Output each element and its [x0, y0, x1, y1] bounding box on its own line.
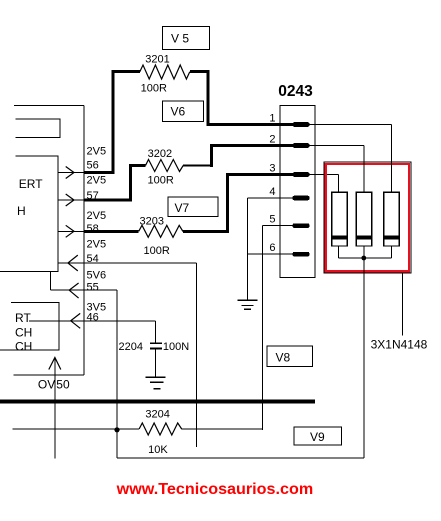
wire pin5 vertical: [262, 226, 264, 430]
diode D2 body: [356, 192, 372, 246]
wire 10K row left: [13, 428, 139, 430]
svg-text:5: 5: [269, 214, 275, 226]
svg-text:OV: OV: [38, 378, 55, 392]
arrow left pin55: [69, 283, 78, 298]
box V8: [267, 346, 313, 367]
wire pin1 thin right to D3: [308, 124, 391, 126]
resistor R3202: [146, 160, 184, 172]
svg-text:6: 6: [269, 242, 275, 254]
arrow right pin57: [66, 194, 74, 206]
svg-text:100R: 100R: [144, 245, 170, 257]
wire pin5 thin left: [263, 225, 294, 227]
svg-text:2V5: 2V5: [87, 210, 107, 222]
wire pin55 vertical down to 10K row: [116, 290, 118, 458]
wire D3 top lead: [390, 125, 392, 193]
box V9: [294, 427, 342, 445]
wire pin2 thin right to D2: [308, 145, 364, 147]
diode D3 body: [384, 192, 400, 246]
wire pin57 thin: [58, 199, 84, 201]
diode D2 cathode band: [356, 236, 372, 240]
red box (diode module): [326, 164, 409, 271]
pin 5 bar: [293, 223, 310, 228]
pin 6 bar: [293, 252, 310, 257]
pin 3 bar: [293, 172, 310, 177]
wire diode rail down to bottom rail: [363, 258, 365, 458]
wire bottom rail: [117, 457, 364, 459]
svg-text:3204: 3204: [145, 409, 169, 421]
wire diode common rail: [339, 257, 392, 259]
svg-text:RT: RT: [15, 311, 31, 325]
pin 1 bar: [293, 122, 310, 127]
ground symbol (C2204): [146, 377, 166, 389]
wire D1 top lead: [338, 175, 340, 193]
svg-text:58: 58: [87, 223, 99, 235]
wire pin55 stub from IC bottom: [49, 272, 51, 291]
wire pin55 thin: [50, 289, 117, 291]
svg-text:3X1N4148: 3X1N4148: [371, 338, 428, 352]
svg-text:5V6: 5V6: [87, 270, 107, 282]
pin 2 bar: [293, 143, 310, 148]
svg-text:3: 3: [269, 162, 275, 174]
capacitor C2204 lead top: [154, 321, 156, 343]
svg-text:V 5: V 5: [171, 32, 189, 46]
svg-text:www.Tecnicosaurios.com: www.Tecnicosaurios.com: [116, 481, 314, 498]
connector stub (open rectangle top-left): [15, 119, 60, 138]
thick ground bus: [0, 400, 315, 404]
arrow left pin54: [68, 255, 78, 271]
arrow right pin56: [66, 167, 74, 179]
svg-text:46: 46: [87, 311, 99, 323]
wire pin57 thick to R3202: [84, 166, 146, 202]
arrow up OV50: [49, 358, 61, 370]
wire pin4/pin6 vertical to ground: [247, 198, 249, 300]
diode D3 cathode band: [384, 236, 400, 240]
svg-text:54: 54: [87, 253, 99, 265]
leader line red box to label: [402, 273, 404, 336]
wire pin56 thin: [58, 172, 84, 174]
wire pin46 thin from RT: [29, 320, 155, 322]
svg-text:2V5: 2V5: [87, 238, 107, 250]
wire pin6 thin left: [248, 253, 294, 255]
svg-text:100R: 100R: [141, 83, 167, 95]
capacitor C2204 lead bottom: [154, 349, 156, 377]
box V7: [168, 197, 218, 216]
svg-text:4: 4: [269, 186, 275, 198]
resistor R3204: [139, 423, 182, 435]
wire D2 bottom lead: [363, 246, 365, 258]
wire pin58 thick to R3203: [84, 230, 139, 233]
IC U1 (ERT H) partial outline: [0, 156, 58, 272]
svg-text:10K: 10K: [148, 444, 168, 456]
wire R3203 right thick up to pin3: [183, 175, 294, 234]
wire pin4 thin left: [248, 197, 294, 199]
svg-text:3201: 3201: [145, 53, 169, 65]
box V5: [162, 27, 209, 50]
arrow right pin58: [66, 225, 74, 237]
svg-text:50: 50: [56, 378, 70, 392]
wire pin3 thin right to D1: [308, 174, 339, 176]
svg-text:3203: 3203: [140, 216, 164, 228]
ground symbol (pins 4/6): [238, 300, 258, 309]
svg-text:ERT: ERT: [19, 177, 43, 191]
wire 10K row right to pin5 drop: [182, 428, 263, 430]
svg-text:2V5: 2V5: [87, 174, 107, 186]
resistor R3201: [140, 65, 190, 79]
junction dot node A: [114, 427, 119, 432]
svg-text:V8: V8: [276, 351, 291, 365]
wire OV50 vertical with up arrow: [54, 358, 56, 459]
svg-text:V9: V9: [310, 430, 325, 444]
wire pin54 thin: [58, 262, 196, 264]
svg-text:2: 2: [269, 133, 275, 145]
svg-text:V6: V6: [171, 105, 186, 119]
svg-text:3202: 3202: [148, 148, 172, 160]
wire D3 bottom lead: [390, 246, 392, 258]
wire pin56 thick to R3201: [84, 72, 140, 174]
wire D1 bottom lead: [338, 246, 340, 258]
resistor R3203: [139, 225, 183, 237]
wire corner up to pin2 thick: [210, 146, 294, 168]
wire R3202 right to corner: [183, 165, 211, 167]
wire top-left horizontal to bus top: [14, 105, 84, 107]
wire bus bottom horizontal: [14, 374, 84, 376]
node left bus vertical: [83, 106, 85, 376]
svg-text:2204: 2204: [119, 341, 143, 353]
wire R3201 right thick to pin1: [190, 70, 294, 124]
diode D1 body: [332, 192, 348, 246]
svg-text:1: 1: [269, 112, 275, 124]
junction dot diode rail: [361, 256, 366, 261]
svg-text:2V5: 2V5: [87, 145, 107, 157]
connector J1 box: [280, 106, 315, 278]
box V6: [162, 101, 203, 121]
svg-text:V7: V7: [175, 201, 190, 215]
svg-text:CH: CH: [15, 339, 32, 353]
svg-text:CH: CH: [15, 326, 32, 340]
svg-text:55: 55: [87, 282, 99, 294]
IC U2 (RT CH CH) partial outline: [0, 303, 59, 351]
wire D2 top lead: [363, 146, 365, 193]
diode D1 cathode band: [332, 236, 348, 240]
svg-text:H: H: [17, 204, 26, 218]
wire pin54 vertical down: [195, 263, 197, 447]
wire pin58 thin: [58, 230, 84, 232]
svg-text:56: 56: [87, 160, 99, 172]
capacitor C2204 plates: [150, 343, 162, 348]
svg-text:100N: 100N: [163, 341, 189, 353]
red box black outer frame: [324, 162, 411, 273]
pin 4 bar: [293, 196, 310, 201]
arrow left pin46: [71, 313, 81, 328]
svg-text:0243: 0243: [278, 83, 313, 100]
svg-text:100R: 100R: [148, 175, 174, 187]
